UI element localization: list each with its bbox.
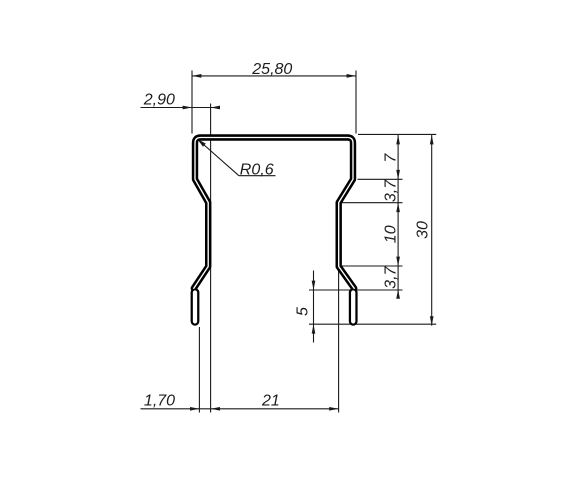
svg-text:2,90: 2,90 [143,92,175,109]
svg-text:R0,6: R0,6 [240,162,274,179]
svg-text:10: 10 [383,225,400,243]
svg-text:21: 21 [261,392,280,409]
svg-text:3,7: 3,7 [383,265,400,288]
svg-text:1,70: 1,70 [144,392,175,409]
svg-text:30: 30 [415,221,432,239]
svg-text:3,7: 3,7 [383,179,400,202]
svg-text:25,80: 25,80 [251,61,292,78]
svg-text:5: 5 [295,307,312,316]
svg-text:7: 7 [383,153,400,163]
